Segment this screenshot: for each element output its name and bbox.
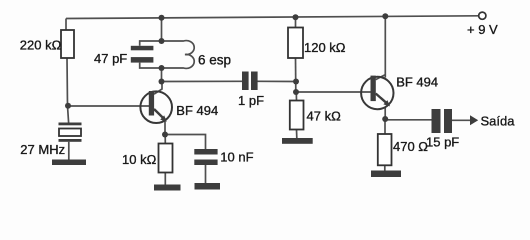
svg-text:120 kΩ: 120 kΩ [304,40,346,55]
svg-text:220 kΩ: 220 kΩ [20,38,62,53]
svg-text:27 MHz: 27 MHz [20,142,65,157]
svg-text:BF 494: BF 494 [396,75,438,90]
svg-text:10 nF: 10 nF [220,150,253,165]
svg-text:10 kΩ: 10 kΩ [122,152,157,167]
svg-text:47 kΩ: 47 kΩ [307,108,342,123]
svg-text:6 esp: 6 esp [198,53,231,68]
svg-text:470 Ω: 470 Ω [393,139,428,154]
svg-text:1 pF: 1 pF [238,93,264,108]
svg-text:15 pF: 15 pF [426,134,459,149]
svg-text:47 pF: 47 pF [94,51,127,66]
svg-text:+ 9 V: + 9 V [467,22,498,37]
svg-text:BF 494: BF 494 [176,103,218,118]
svg-text:Saída: Saída [481,113,516,128]
